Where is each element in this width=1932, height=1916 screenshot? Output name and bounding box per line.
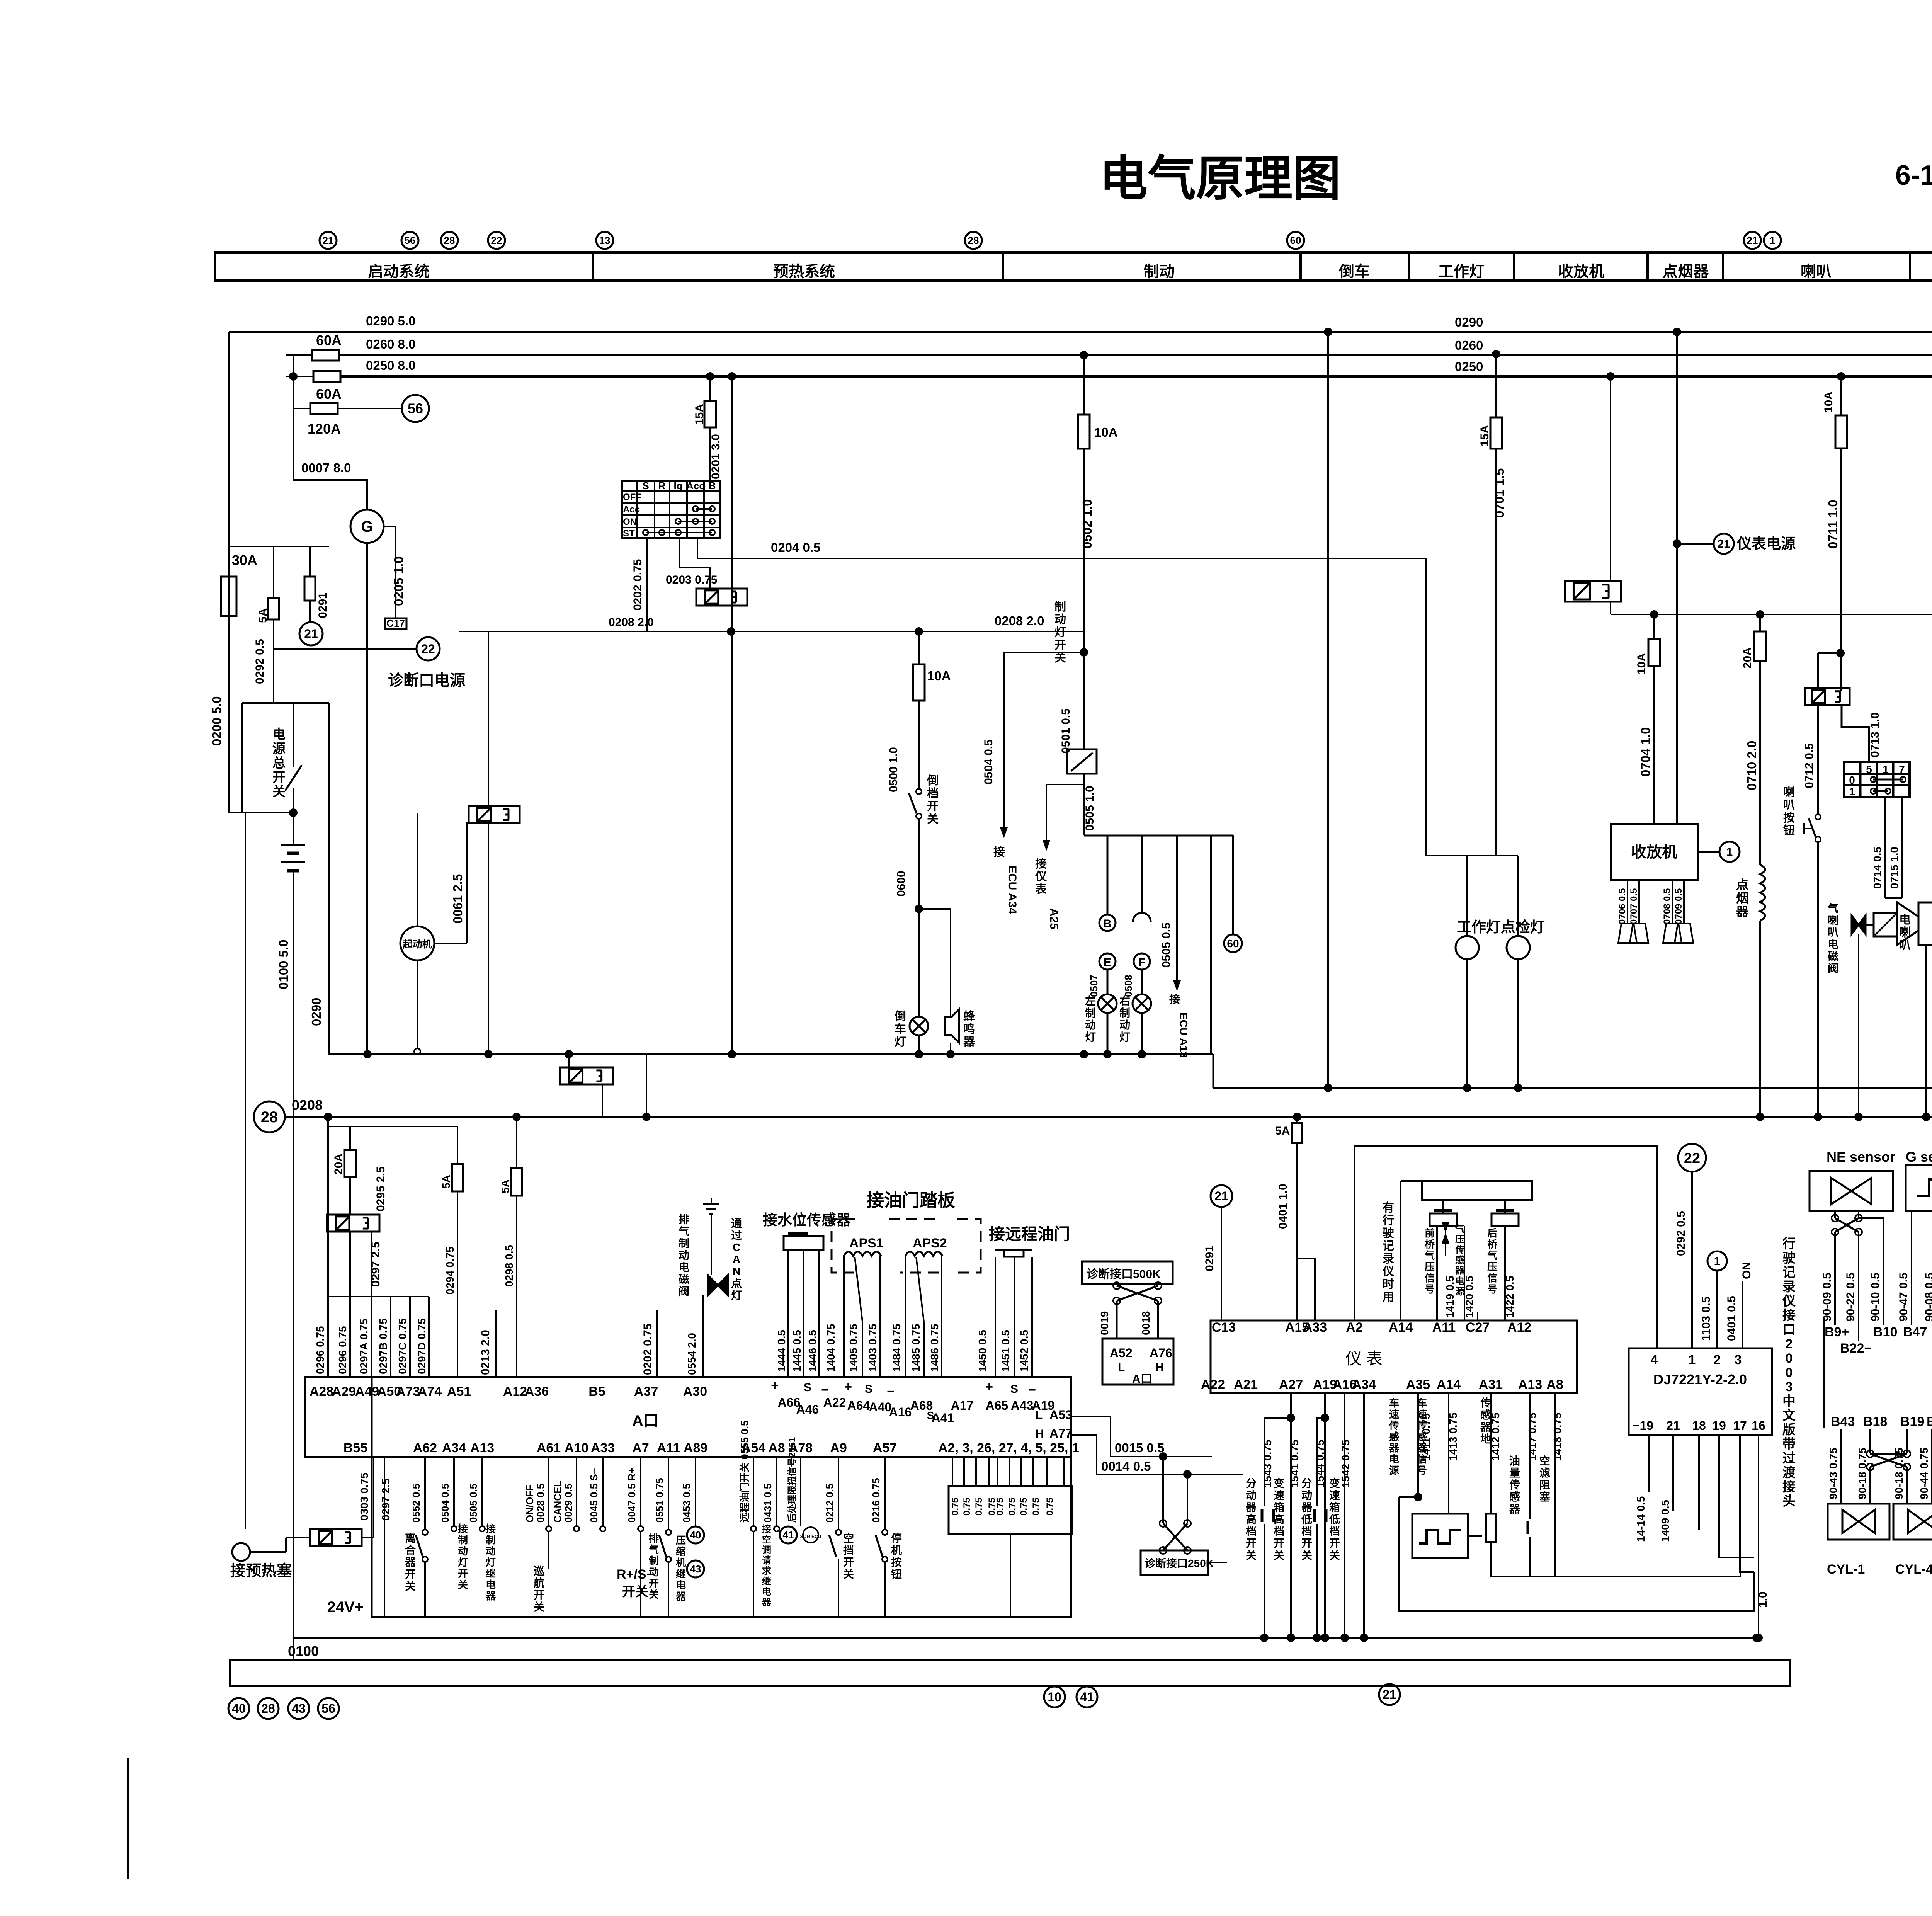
svg-text:41: 41 xyxy=(1080,1690,1094,1704)
work lamp left xyxy=(1466,856,1468,936)
svg-text:60A: 60A xyxy=(316,386,342,402)
arrow to ECU A13 0505 0.5 xyxy=(1176,835,1178,989)
svg-text:10A: 10A xyxy=(1094,425,1118,439)
svg-text:0291: 0291 xyxy=(1203,1246,1216,1271)
wire bar to bus step xyxy=(1210,835,1212,1054)
svg-text:0712 0.5: 0712 0.5 xyxy=(1803,743,1816,788)
svg-text:A口: A口 xyxy=(632,1412,659,1429)
svg-text:A16: A16 xyxy=(889,1405,912,1419)
svg-text:0711 1.0: 0711 1.0 xyxy=(1826,500,1840,549)
svg-text:0208 2.0: 0208 2.0 xyxy=(609,616,654,629)
svg-text:1404 0.75: 1404 0.75 xyxy=(825,1324,837,1372)
battery xyxy=(293,813,294,845)
wires 0714 0715 xyxy=(1884,797,1886,898)
generator G xyxy=(350,510,384,543)
svg-text:10A: 10A xyxy=(1822,391,1835,413)
CAN wires 0015 0014 xyxy=(1071,1417,1212,1457)
horn relay xyxy=(1805,688,1850,705)
svg-text:B18: B18 xyxy=(1863,1414,1887,1429)
speed sensor wires xyxy=(1417,1393,1419,1497)
svg-text:0431 0.5: 0431 0.5 xyxy=(762,1484,774,1523)
instrument power tap xyxy=(1677,543,1714,545)
branch 0504 to ECU A34 xyxy=(1004,652,1084,822)
svg-text:0202 0.75: 0202 0.75 xyxy=(631,559,644,611)
svg-text:16: 16 xyxy=(1752,1419,1765,1433)
svg-text:14-14 0.5: 14-14 0.5 xyxy=(1635,1496,1647,1542)
svg-text:喇叭: 喇叭 xyxy=(1801,263,1832,280)
svg-text:21: 21 xyxy=(323,235,334,246)
svg-text:通过CAN点灯: 通过CAN点灯 xyxy=(731,1217,742,1301)
svg-text:0504 0.5: 0504 0.5 xyxy=(982,739,995,784)
svg-text:1: 1 xyxy=(1849,786,1855,798)
svg-text:左制动灯: 左制动灯 xyxy=(1085,995,1096,1043)
circle 56 xyxy=(402,395,429,422)
fuse 10A 0704 xyxy=(1650,610,1658,619)
svg-text:0205 1.0: 0205 1.0 xyxy=(391,556,406,606)
svg-text:90-22 0.5: 90-22 0.5 xyxy=(1844,1273,1857,1322)
svg-text:0260: 0260 xyxy=(1455,338,1483,352)
svg-text:1: 1 xyxy=(1726,846,1733,859)
glow plug terminal 接预热塞 xyxy=(232,1543,250,1561)
svg-text:A21: A21 xyxy=(1234,1377,1258,1392)
wire 0505 1.0 xyxy=(1083,774,1085,835)
circle 28 bus xyxy=(254,1101,285,1132)
svg-text:A51: A51 xyxy=(447,1384,471,1399)
svg-text:15A: 15A xyxy=(1478,425,1491,446)
svg-text:A25: A25 xyxy=(1048,908,1060,929)
svg-text:0706 0.5: 0706 0.5 xyxy=(1617,888,1628,924)
svg-text:分动器高档开关: 分动器高档开关 xyxy=(1245,1477,1257,1561)
NE sensor box xyxy=(1810,1171,1893,1211)
svg-text:1451 0.5: 1451 0.5 xyxy=(1000,1330,1012,1372)
switch column A61 cruise ON/OFF xyxy=(548,1457,549,1526)
switch column A34 xyxy=(453,1457,455,1526)
svg-text:A29: A29 xyxy=(332,1384,356,1399)
svg-text:A41: A41 xyxy=(932,1411,954,1425)
svg-text:1103 0.5: 1103 0.5 xyxy=(1700,1297,1713,1341)
svg-text:A52: A52 xyxy=(1110,1346,1133,1360)
svg-text:90-08 0.5: 90-08 0.5 xyxy=(1923,1273,1932,1322)
terminal E xyxy=(1099,953,1116,970)
svg-text:C13: C13 xyxy=(1212,1320,1236,1335)
svg-text:1: 1 xyxy=(1883,763,1889,775)
dots at bottom bus xyxy=(1260,1634,1269,1642)
svg-text:Acc: Acc xyxy=(686,480,705,492)
wire 0204 from Acc xyxy=(697,538,1426,558)
wire preheat tap xyxy=(328,1117,457,1126)
svg-text:A14: A14 xyxy=(1437,1377,1461,1392)
svg-text:10A: 10A xyxy=(927,669,951,683)
fuse 20A 0710 xyxy=(1756,610,1764,619)
svg-text:0295 2.5: 0295 2.5 xyxy=(374,1166,387,1212)
svg-text:A62: A62 xyxy=(413,1441,437,1455)
svg-text:A76: A76 xyxy=(1150,1346,1172,1360)
svg-text:A13: A13 xyxy=(470,1441,494,1455)
svg-text:前桥气压信号: 前桥气压信号 xyxy=(1424,1227,1435,1295)
svg-text:A36: A36 xyxy=(525,1384,549,1399)
svg-text:0551 0.75: 0551 0.75 xyxy=(654,1478,665,1523)
svg-text:收放机: 收放机 xyxy=(1631,844,1677,861)
svg-text:开关: 开关 xyxy=(622,1584,648,1599)
svg-text:1544 0.75: 1544 0.75 xyxy=(1314,1440,1326,1488)
svg-text:1445 0.5: 1445 0.5 xyxy=(791,1330,803,1372)
wire x1673 between buses xyxy=(646,1054,647,1117)
svg-text:巡航开关: 巡航开关 xyxy=(534,1565,544,1613)
svg-text:油量传感器: 油量传感器 xyxy=(1509,1455,1520,1515)
connector A52 A76 box xyxy=(1102,1339,1173,1385)
svg-text:0707 0.5: 0707 0.5 xyxy=(1629,888,1639,924)
svg-text:0708 0.5: 0708 0.5 xyxy=(1662,888,1672,924)
wire left vertical to glow relay xyxy=(245,813,246,1529)
svg-text:1405 0.75: 1405 0.75 xyxy=(847,1324,859,1372)
switch column A8 AC request xyxy=(776,1457,777,1526)
svg-text:40: 40 xyxy=(232,1702,246,1715)
svg-text:21: 21 xyxy=(304,627,318,641)
svg-text:倒车灯: 倒车灯 xyxy=(894,1010,906,1048)
svg-text:17: 17 xyxy=(1733,1419,1747,1433)
svg-text:1409 0.5: 1409 0.5 xyxy=(1659,1500,1671,1542)
svg-text:120A: 120A xyxy=(308,421,341,437)
svg-text:0.75: 0.75 xyxy=(974,1497,984,1516)
svg-text:0505 0.5: 0505 0.5 xyxy=(1160,922,1173,968)
gear switch bars xyxy=(1272,1509,1275,1522)
svg-text:A8: A8 xyxy=(1546,1377,1563,1392)
svg-text:0701 1.5: 0701 1.5 xyxy=(1492,468,1507,518)
svg-text:+: + xyxy=(985,1380,993,1394)
svg-text:−: − xyxy=(1028,1383,1036,1397)
system header band xyxy=(215,252,1932,281)
svg-text:G sensor: G sensor xyxy=(1906,1149,1932,1165)
svg-text:仪表电源: 仪表电源 xyxy=(1736,536,1796,552)
svg-text:+: + xyxy=(844,1380,852,1394)
svg-text:A11: A11 xyxy=(1432,1320,1456,1335)
svg-text:0713 1.0: 0713 1.0 xyxy=(1869,712,1881,757)
svg-text:0297 2.5: 0297 2.5 xyxy=(380,1479,392,1521)
starter 起动机 xyxy=(400,926,434,960)
svg-text:60A: 60A xyxy=(316,332,342,348)
svg-text:A33: A33 xyxy=(591,1441,615,1455)
svg-text:0015 0.5: 0015 0.5 xyxy=(1115,1441,1164,1455)
svg-text:B5: B5 xyxy=(588,1384,605,1399)
switch column A33 S- xyxy=(602,1457,604,1526)
svg-text:19: 19 xyxy=(1712,1419,1726,1433)
svg-text:1542 0.75: 1542 0.75 xyxy=(1340,1440,1352,1488)
svg-text:0100: 0100 xyxy=(288,1643,319,1659)
svg-text:B: B xyxy=(1103,917,1112,930)
svg-text:0202 0.75: 0202 0.75 xyxy=(641,1324,654,1375)
svg-text:A10: A10 xyxy=(565,1441,588,1455)
svg-text:0298 0.5: 0298 0.5 xyxy=(503,1245,515,1287)
svg-text:离合器开关: 离合器开关 xyxy=(405,1532,416,1592)
svg-text:ST: ST xyxy=(623,528,635,539)
branch to buzzer xyxy=(919,909,951,1016)
svg-text:接制动灯继电器: 接制动灯继电器 xyxy=(485,1523,496,1602)
svg-text:电源总开关: 电源总开关 xyxy=(272,727,286,799)
gear switch wires 2 xyxy=(1317,1418,1325,1506)
svg-text:0100 5.0: 0100 5.0 xyxy=(276,940,291,989)
svg-text:A43: A43 xyxy=(1011,1399,1034,1412)
svg-text:90-43 0.75: 90-43 0.75 xyxy=(1827,1448,1839,1499)
svg-text:预热系统: 预热系统 xyxy=(773,263,835,280)
svg-text:DJ7221Y-2-2.0: DJ7221Y-2-2.0 xyxy=(1653,1371,1747,1387)
svg-text:A61: A61 xyxy=(537,1441,561,1455)
svg-text:21: 21 xyxy=(1717,538,1730,551)
svg-text:41: 41 xyxy=(783,1529,794,1541)
svg-text:排气制动开关: 排气制动开关 xyxy=(648,1533,659,1600)
svg-text:0260 8.0: 0260 8.0 xyxy=(366,337,415,351)
DJ connector box xyxy=(1629,1348,1772,1435)
wire 0297 2.5 xyxy=(349,1232,351,1297)
svg-text:−: − xyxy=(887,1384,895,1399)
svg-text:0203 0.75: 0203 0.75 xyxy=(666,573,717,586)
svg-text:A89: A89 xyxy=(684,1441,707,1455)
svg-text:A8: A8 xyxy=(768,1441,785,1455)
svg-text:倒档开关: 倒档开关 xyxy=(927,774,939,825)
svg-text:CANCEL: CANCEL xyxy=(552,1481,563,1523)
svg-text:1411 0.75: 1411 0.75 xyxy=(1420,1413,1432,1461)
svg-text:0297 2.5: 0297 2.5 xyxy=(369,1242,382,1287)
svg-text:B10: B10 xyxy=(1873,1325,1897,1339)
svg-text:A12: A12 xyxy=(1507,1320,1531,1335)
svg-text:5: 5 xyxy=(1866,763,1872,775)
svg-text:A74: A74 xyxy=(418,1384,442,1399)
switch column A78 SCR xyxy=(800,1457,801,1526)
svg-text:0296 0.75: 0296 0.75 xyxy=(337,1326,349,1374)
svg-text:0297B 0.75: 0297B 0.75 xyxy=(377,1318,389,1374)
svg-text:接远程油门: 接远程油门 xyxy=(989,1225,1070,1243)
svg-text:CYL-1: CYL-1 xyxy=(1827,1562,1865,1577)
svg-text:0453 0.5: 0453 0.5 xyxy=(681,1484,692,1523)
ECU connector box A xyxy=(305,1377,1071,1457)
svg-text:24V+: 24V+ xyxy=(327,1599,364,1616)
svg-text:A57: A57 xyxy=(873,1441,897,1455)
svg-text:6-1: 6-1 xyxy=(1895,160,1932,191)
wire vertical left 0290 drop xyxy=(228,332,230,813)
svg-text:远程油门开关 0555 0.5: 远程油门开关 0555 0.5 xyxy=(739,1421,750,1523)
bus 0250 xyxy=(341,375,1932,378)
svg-text:1485 0.75: 1485 0.75 xyxy=(910,1324,922,1372)
svg-text:0: 0 xyxy=(1849,774,1855,786)
DJ interconnect wires xyxy=(1468,1535,1482,1537)
svg-text:变速箱高档开关: 变速箱高档开关 xyxy=(1274,1477,1284,1561)
svg-text:0297A 0.75: 0297A 0.75 xyxy=(358,1319,370,1374)
wire generator down to bus xyxy=(366,543,368,1054)
svg-text:21: 21 xyxy=(1747,235,1758,246)
fuse 15A ignition 0201 xyxy=(709,376,711,401)
svg-text:接水位传感器: 接水位传感器 xyxy=(763,1212,851,1229)
instrument box xyxy=(1211,1320,1577,1393)
svg-text:电气原理图: 电气原理图 xyxy=(1099,152,1341,206)
svg-text:制动: 制动 xyxy=(1144,263,1175,280)
horn changeover table xyxy=(1844,762,1910,797)
svg-text:0208: 0208 xyxy=(292,1097,323,1113)
wire 0250 to radio relay xyxy=(1610,376,1611,581)
G sensor box xyxy=(1906,1165,1932,1211)
switch column A7 R+ xyxy=(640,1457,641,1526)
branch to instrument A25 xyxy=(1046,784,1084,835)
rear axle pressure sensor xyxy=(1492,1213,1519,1226)
svg-text:收放机: 收放机 xyxy=(1558,263,1604,280)
svg-text:0019: 0019 xyxy=(1099,1311,1111,1335)
front axle pressure sensor xyxy=(1430,1213,1457,1226)
svg-text:G: G xyxy=(361,518,373,535)
svg-text:点烟器: 点烟器 xyxy=(1662,263,1709,280)
cross B18 B19 xyxy=(1870,1454,1907,1467)
svg-text:Acc: Acc xyxy=(623,504,640,515)
svg-text:后处理限扭信号2551: 后处理限扭信号2551 xyxy=(787,1437,798,1523)
svg-text:0.75: 0.75 xyxy=(1007,1497,1017,1516)
svg-text:制动灯开关: 制动灯开关 xyxy=(1054,601,1066,664)
svg-text:0290: 0290 xyxy=(309,998,323,1026)
terminal F xyxy=(1141,835,1143,913)
svg-text:1543 0.75: 1543 0.75 xyxy=(1262,1440,1274,1488)
switch column A57 stop button xyxy=(884,1457,886,1530)
svg-text:0028 0.5: 0028 0.5 xyxy=(535,1484,546,1523)
wire 0204 drop to work lamps xyxy=(1425,558,1427,856)
svg-text:诊断接口250K: 诊断接口250K xyxy=(1145,1557,1214,1569)
wire vertical x851 to bus xyxy=(328,703,330,1054)
preheat splitter bar xyxy=(328,1296,429,1297)
svg-text:20A: 20A xyxy=(332,1154,345,1175)
speed sensor pulse box xyxy=(1412,1514,1468,1558)
radio circle 1 xyxy=(1698,851,1719,853)
svg-text:1422 0.5: 1422 0.5 xyxy=(1504,1276,1516,1318)
svg-text:5A: 5A xyxy=(1275,1125,1290,1137)
svg-text:A9: A9 xyxy=(830,1441,847,1455)
svg-text:0007 8.0: 0007 8.0 xyxy=(301,461,351,475)
svg-text:ECU A34: ECU A34 xyxy=(1006,866,1019,914)
svg-text:90-10 0.5: 90-10 0.5 xyxy=(1869,1273,1882,1322)
svg-text:接油门踏板: 接油门踏板 xyxy=(866,1190,955,1210)
left margin tick xyxy=(127,1758,129,1879)
svg-text:车速传感器电源: 车速传感器电源 xyxy=(1389,1397,1400,1476)
ground symbol xyxy=(703,1203,719,1205)
svg-text:90-44 0.75: 90-44 0.75 xyxy=(1918,1448,1930,1499)
switch column A54 remote throttle switch xyxy=(753,1457,754,1526)
svg-text:1: 1 xyxy=(1714,1255,1721,1268)
svg-text:H: H xyxy=(1155,1361,1164,1374)
svg-text:L: L xyxy=(1118,1361,1125,1374)
svg-text:40: 40 xyxy=(690,1529,701,1541)
svg-text:1444 0.5: 1444 0.5 xyxy=(776,1330,787,1372)
svg-text:60: 60 xyxy=(1227,938,1239,949)
wire 0291 vertical xyxy=(1676,332,1678,824)
svg-text:0204 0.5: 0204 0.5 xyxy=(771,540,820,555)
svg-text:1419 0.5: 1419 0.5 xyxy=(1444,1276,1456,1318)
glow wires to ECU pins xyxy=(327,1297,329,1377)
svg-text:0290 5.0: 0290 5.0 xyxy=(366,314,415,328)
svg-text:0552 0.5: 0552 0.5 xyxy=(410,1484,422,1523)
svg-text:28: 28 xyxy=(261,1109,278,1126)
svg-text:电喇叭: 电喇叭 xyxy=(1899,914,1911,952)
svg-text:5A: 5A xyxy=(257,608,269,623)
svg-text:A30: A30 xyxy=(683,1384,707,1399)
fuse 120A xyxy=(293,408,310,409)
svg-text:A65: A65 xyxy=(986,1399,1009,1412)
junction dots lamp bus xyxy=(1756,1113,1764,1121)
svg-text:0714 0.5: 0714 0.5 xyxy=(1871,847,1883,889)
svg-text:0501 0.5: 0501 0.5 xyxy=(1060,708,1072,754)
right brake lamp 0508 xyxy=(1141,970,1143,994)
speed sensor outer box xyxy=(1399,1497,1754,1611)
svg-text:1: 1 xyxy=(1689,1353,1696,1367)
svg-text:30A: 30A xyxy=(232,552,257,568)
svg-text:A22: A22 xyxy=(1201,1377,1225,1392)
svg-text:ECU A13: ECU A13 xyxy=(1178,1012,1190,1058)
wire horizontal y2103 xyxy=(229,812,293,813)
svg-text:A14: A14 xyxy=(1389,1320,1413,1335)
svg-text:−19: −19 xyxy=(1633,1419,1653,1433)
svg-text:A13: A13 xyxy=(1518,1377,1542,1392)
svg-text:S: S xyxy=(865,1383,872,1395)
fuse 60A on 0260 xyxy=(286,354,312,356)
svg-text:B55: B55 xyxy=(344,1441,367,1455)
svg-text:A35: A35 xyxy=(1406,1377,1430,1392)
svg-text:0297C 0.75: 0297C 0.75 xyxy=(396,1318,408,1374)
svg-text:接: 接 xyxy=(993,846,1005,859)
svg-text:A77: A77 xyxy=(1049,1426,1072,1440)
svg-text:21: 21 xyxy=(1383,1688,1396,1702)
circle 22 feed xyxy=(1678,1144,1706,1172)
wire 16 to ground xyxy=(1758,1435,1759,1638)
svg-text:43: 43 xyxy=(292,1702,306,1715)
fuse 10A reverse 0500 xyxy=(918,631,920,664)
svg-text:1484 0.75: 1484 0.75 xyxy=(891,1324,903,1372)
svg-text:点烟器: 点烟器 xyxy=(1736,878,1749,919)
switch column A13 xyxy=(481,1457,483,1526)
svg-text:0505 0.5: 0505 0.5 xyxy=(468,1484,479,1523)
circle 21 diag power xyxy=(299,622,323,645)
svg-text:13: 13 xyxy=(599,235,611,246)
sheet ref circles above band xyxy=(320,232,337,249)
svg-text:C27: C27 xyxy=(1466,1320,1490,1335)
switch field enclosure xyxy=(372,1457,1071,1617)
svg-text:0507: 0507 xyxy=(1088,975,1100,997)
dashed frame APS xyxy=(832,1219,855,1273)
svg-text:0715 1.0: 0715 1.0 xyxy=(1888,847,1900,889)
svg-text:E: E xyxy=(1104,956,1111,969)
svg-text:起动机: 起动机 xyxy=(403,939,432,950)
svg-text:56: 56 xyxy=(405,235,416,246)
gear switches below instrument xyxy=(1290,1393,1292,1638)
wires 0303 0297 from relay to B55 xyxy=(362,1537,374,1538)
wire 0502 1.0 xyxy=(1083,449,1085,652)
svg-text:0029 0.5: 0029 0.5 xyxy=(563,1484,574,1523)
fuse 5A (0292) xyxy=(273,546,274,598)
svg-text:43: 43 xyxy=(690,1563,701,1575)
svg-text:1418 0.75: 1418 0.75 xyxy=(1551,1412,1563,1461)
svg-text:22: 22 xyxy=(1684,1150,1700,1166)
fuse 5A (0291) to circle 21 xyxy=(309,546,311,577)
svg-text:A64: A64 xyxy=(847,1399,870,1412)
svg-text:56: 56 xyxy=(321,1702,335,1715)
svg-text:R+/S−: R+/S− xyxy=(617,1567,654,1582)
svg-text:停机按钮: 停机按钮 xyxy=(891,1532,902,1580)
wire relay output to bus xyxy=(488,823,489,1054)
bus B 0208 ground return y2890 xyxy=(285,1116,1932,1118)
wire A33 jog xyxy=(1297,1259,1315,1320)
svg-text:0303 0.75: 0303 0.75 xyxy=(358,1472,370,1521)
svg-text:B43: B43 xyxy=(1831,1414,1855,1429)
wire C27 up xyxy=(1477,1312,1478,1320)
svg-text:0208 2.0: 0208 2.0 xyxy=(995,614,1044,628)
master switch 电源总开关 xyxy=(293,703,294,767)
wire 0202 from S xyxy=(646,538,648,631)
bus 0260 xyxy=(339,354,1932,356)
junction dots brake xyxy=(1103,1050,1112,1058)
svg-text:气喇叭电磁阀: 气喇叭电磁阀 xyxy=(1827,902,1838,974)
svg-text:20A: 20A xyxy=(1741,647,1754,669)
